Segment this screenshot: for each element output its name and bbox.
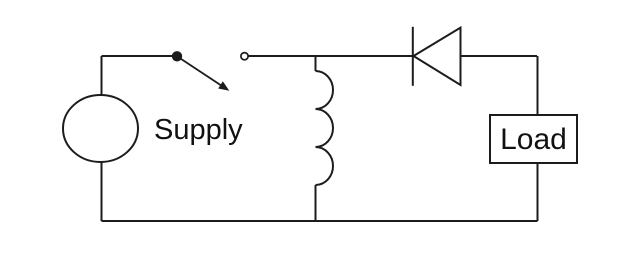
switch SW1 pivot node (filled dot) — [173, 52, 181, 60]
wire: left branch from supply to bottom rail — [101, 161, 103, 221]
inductor L1 lead from top rail — [315, 56, 317, 71]
source V1 Supply (circle symbol) — [63, 95, 138, 162]
inductor L1 coil (three bumps) — [316, 71, 334, 185]
diode D1 triangle (pointing left) — [414, 28, 461, 85]
wire: bottom rail — [102, 220, 538, 222]
inductor L1 lead to bottom rail — [315, 185, 317, 221]
wire: right branch from Load box to bottom rail — [537, 163, 539, 221]
wire: top rail from diode anode to top-right corner — [460, 55, 537, 57]
wire: left branch from top rail to supply — [101, 56, 103, 96]
switch SW1 open terminal (open circle) — [241, 53, 248, 60]
diode D1 cathode bar — [412, 27, 414, 86]
wire: top rail from supply to switch pivot — [102, 55, 176, 57]
switch SW1 blade with arrowhead — [177, 56, 229, 91]
wire: top rail from switch terminal to diode cathode — [248, 55, 412, 57]
wire: right branch down to Load box — [537, 56, 539, 115]
svg-text:Load: Load — [500, 123, 567, 156]
svg-text:Supply: Supply — [154, 114, 243, 146]
load box — [490, 115, 577, 163]
